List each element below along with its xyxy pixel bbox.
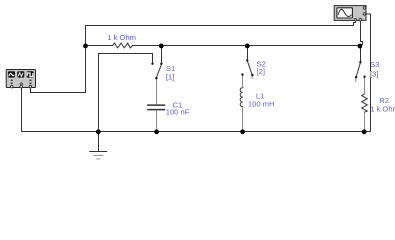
svg-text:[3]: [3]	[370, 69, 378, 78]
svg-text:1 k Ohm: 1 k Ohm	[370, 105, 395, 114]
svg-text:R2: R2	[379, 96, 389, 105]
svg-text:100 nF: 100 nF	[166, 108, 190, 117]
svg-text:1 k Ohm: 1 k Ohm	[107, 33, 136, 42]
svg-text:[1]: [1]	[166, 72, 174, 81]
svg-text:100 mH: 100 mH	[248, 100, 275, 109]
svg-text:[2]: [2]	[257, 67, 265, 76]
svg-text:S3: S3	[370, 60, 379, 69]
